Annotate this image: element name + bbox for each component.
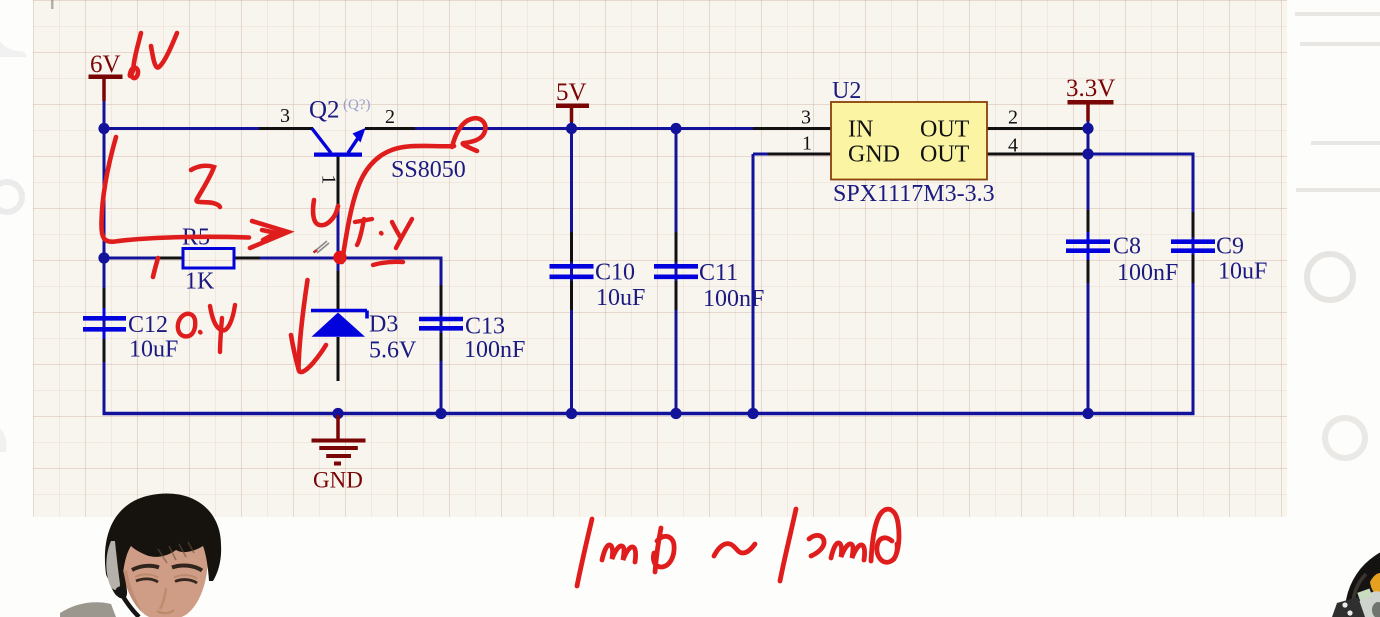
eyebrows bbox=[132, 566, 159, 570]
background fragment: left margin lower arc bbox=[0, 425, 7, 452]
svg-text:4: 4 bbox=[1008, 135, 1018, 157]
pin: C8 pins black bbox=[1087, 210, 1090, 283]
annotation: swoosh arrow loop bbox=[452, 118, 485, 151]
background fragment: right margin ring 2 bbox=[1325, 418, 1365, 458]
pin: C13 pins black bbox=[440, 285, 443, 361]
annotation: big left bracket stroke bbox=[101, 137, 249, 242]
hair wisps on forehead bbox=[158, 542, 194, 563]
mic boom bbox=[121, 593, 139, 617]
wire: C13 branch vertical x=441 bbox=[440, 257, 443, 414]
svg-text:10uF: 10uF bbox=[596, 285, 645, 311]
left sideburn/ear bbox=[106, 548, 127, 599]
wire: C11 branch vertical x=676 bbox=[675, 127, 678, 414]
regulator U2 box bbox=[831, 102, 987, 180]
bracket bbox=[1332, 597, 1365, 617]
pin: R5 pins black bbox=[157, 257, 260, 260]
wire: left vertical net (6V rail) x=104 bbox=[103, 100, 106, 414]
annotation: 1mA ~ 10mA handwriting bbox=[577, 509, 899, 586]
svg-text:100nF: 100nF bbox=[464, 337, 525, 363]
svg-text:100nF: 100nF bbox=[1117, 260, 1178, 286]
wire: R5 row net y=258 bbox=[103, 257, 442, 260]
svg-text:1K: 1K bbox=[185, 269, 215, 295]
svg-text:100nF: 100nF bbox=[703, 286, 764, 312]
svg-text:10uF: 10uF bbox=[1218, 259, 1267, 285]
pin: C10 pins black bbox=[570, 232, 573, 310]
svg-text:5.6V: 5.6V bbox=[369, 338, 417, 364]
pin: Q2 pin3 black bbox=[259, 127, 313, 130]
capacitor C13 bbox=[419, 319, 463, 328]
webcam overlay person bbox=[60, 494, 221, 617]
annotation: 5.8 text bbox=[355, 219, 412, 265]
svg-text:3.3V: 3.3V bbox=[1066, 75, 1115, 102]
pin: Q2 pin1 black bbox=[337, 155, 340, 206]
svg-text:SPX1117M3-3.3: SPX1117M3-3.3 bbox=[833, 181, 995, 207]
pin: U2 pin1 black bbox=[768, 153, 831, 156]
background fragment: top grid smudge bbox=[51, 0, 54, 9]
svg-text:C11: C11 bbox=[699, 260, 738, 286]
svg-text:1: 1 bbox=[802, 133, 812, 155]
svg-text:2: 2 bbox=[385, 106, 395, 128]
svg-text:5V: 5V bbox=[556, 79, 587, 106]
caster wheel photo bottom-right bbox=[1332, 544, 1380, 617]
svg-text:Q2: Q2 bbox=[309, 97, 340, 124]
svg-text:10uF: 10uF bbox=[129, 337, 178, 363]
pin: U2 pin3 black bbox=[753, 127, 831, 130]
svg-text:6V: 6V bbox=[90, 51, 121, 78]
annotation: big swoosh to the right bbox=[342, 146, 454, 262]
annotation: arrowhead right bbox=[250, 221, 288, 248]
pin: C11 pins black bbox=[675, 232, 678, 310]
wire: top horizontal net y=128.5 bbox=[103, 127, 754, 130]
red node (junction highlight) bbox=[333, 251, 346, 264]
hub metallic bbox=[1358, 591, 1380, 617]
nose bbox=[160, 588, 166, 609]
cheek shading bbox=[123, 570, 142, 612]
background fragment: left margin ring bbox=[0, 182, 22, 212]
eyes downcast bbox=[136, 579, 158, 582]
tire bbox=[1345, 544, 1380, 617]
svg-text:C9: C9 bbox=[1216, 234, 1244, 260]
capacitor C10 bbox=[550, 266, 594, 277]
svg-text:OUT: OUT bbox=[920, 142, 970, 168]
annotation: small tick below R5 bbox=[153, 258, 158, 277]
svg-text:SS8050: SS8050 bbox=[391, 157, 466, 183]
pin: U2 pin4 black bbox=[987, 153, 1086, 156]
svg-text:GND: GND bbox=[848, 142, 900, 168]
resistor R5 bbox=[183, 249, 234, 269]
svg-text:2: 2 bbox=[1008, 107, 1018, 129]
capacitor C11 bbox=[654, 266, 698, 277]
pin: C12 pins black bbox=[103, 288, 106, 362]
annotation: U hook under Q2 bbox=[313, 200, 338, 225]
ground symbol GND bbox=[312, 415, 366, 464]
wire: pin4 to C9 horizontal y=154 bbox=[1086, 153, 1195, 156]
svg-text:D3: D3 bbox=[369, 312, 398, 338]
tire inner ridge bbox=[1353, 574, 1366, 609]
capacitor C12 bbox=[83, 308, 126, 339]
svg-text:OUT: OUT bbox=[920, 117, 970, 143]
power port 6V bbox=[89, 51, 123, 101]
face skin bbox=[120, 521, 208, 617]
pin: C9 pins black bbox=[1192, 212, 1195, 283]
svg-text:3: 3 bbox=[801, 107, 811, 129]
svg-text:(Q?): (Q?) bbox=[343, 97, 370, 113]
svg-text:GND: GND bbox=[313, 468, 363, 493]
pencil cursor bbox=[315, 241, 329, 253]
power port 3.3V bbox=[1066, 75, 1115, 121]
yellow rim bbox=[1370, 573, 1380, 597]
zener diode D3 bbox=[311, 311, 367, 319]
wire: bottom ground rail y=413 bbox=[103, 412, 1195, 416]
eyelid creases bbox=[135, 574, 158, 577]
svg-text:C12: C12 bbox=[128, 312, 168, 338]
wire: C10 branch vertical x=571.5 bbox=[570, 120, 573, 414]
headphone band bbox=[106, 541, 120, 590]
annotation: 0.4 text bbox=[178, 305, 235, 352]
hair bbox=[105, 494, 221, 586]
label green bbox=[1357, 588, 1372, 600]
svg-text:C13: C13 bbox=[465, 314, 505, 340]
annotation: down arrow left of D3 bbox=[291, 280, 326, 372]
background fragment: right margin traces bbox=[1295, 14, 1380, 190]
transistor Q2 symbol bbox=[312, 129, 362, 155]
wire: C9 branch vertical x=1193 bbox=[1192, 153, 1195, 415]
pin: Q2 pin2 black bbox=[365, 127, 415, 130]
svg-text:1: 1 bbox=[318, 175, 340, 185]
power port 5V bbox=[556, 79, 589, 122]
capacitor C9 bbox=[1171, 242, 1215, 251]
svg-text:C10: C10 bbox=[595, 260, 635, 286]
wire: 3.3V net vertical x=1088 bbox=[1087, 120, 1090, 414]
pin: D3 pins black bbox=[337, 271, 340, 381]
capacitor C8 bbox=[1066, 232, 1110, 260]
shirt shoulder bbox=[60, 602, 116, 617]
wire: U2 GND net vertical x=753 bbox=[753, 154, 770, 414]
svg-text:IN: IN bbox=[848, 117, 873, 143]
background fragment: left margin arc bbox=[0, 30, 26, 57]
pin: U2 pin2 black bbox=[987, 127, 1086, 130]
background fragment: right margin ring 1 bbox=[1307, 254, 1353, 300]
svg-text:C8: C8 bbox=[1113, 234, 1141, 260]
svg-text:3: 3 bbox=[280, 105, 290, 127]
annotation: current letter I bbox=[191, 166, 220, 207]
wire: Q2 base/D3 vertical x=338 bbox=[337, 205, 340, 310]
annotation: handwritten 6V bbox=[130, 33, 177, 78]
svg-text:U2: U2 bbox=[832, 78, 861, 104]
